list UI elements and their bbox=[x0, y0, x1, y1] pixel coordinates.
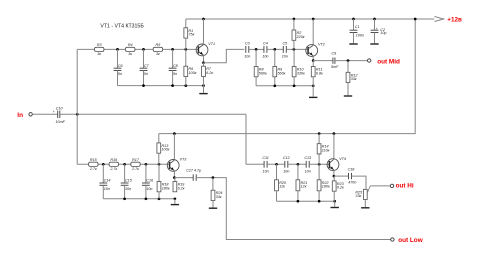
svg-text:VT1: VT1 bbox=[208, 42, 215, 46]
svg-text:3к: 3к bbox=[97, 52, 101, 56]
svg-text:5mF: 5mF bbox=[331, 65, 339, 69]
svg-text:10µ: 10µ bbox=[380, 31, 386, 35]
svg-text:470n: 470n bbox=[348, 180, 356, 184]
svg-text:C16: C16 bbox=[146, 179, 154, 183]
svg-text:2.7к: 2.7к bbox=[109, 167, 117, 171]
svg-text:5n: 5n bbox=[173, 72, 177, 76]
svg-text:100к: 100к bbox=[189, 71, 197, 75]
svg-text:C14: C14 bbox=[104, 179, 111, 183]
svg-text:6.2к: 6.2к bbox=[337, 186, 344, 190]
svg-text:C10: C10 bbox=[56, 106, 64, 110]
svg-text:10n: 10n bbox=[146, 187, 152, 191]
svg-text:75к: 75к bbox=[189, 33, 195, 37]
svg-text:33к: 33к bbox=[355, 194, 361, 198]
svg-text:12к: 12к bbox=[301, 185, 307, 189]
svg-text:VT3: VT3 bbox=[180, 158, 188, 162]
svg-text:12к: 12к bbox=[279, 185, 285, 189]
svg-text:6.8к: 6.8к bbox=[316, 71, 323, 75]
svg-text:VT2: VT2 bbox=[318, 43, 325, 47]
svg-text:R17: R17 bbox=[132, 158, 140, 162]
svg-text:220к: 220к bbox=[296, 35, 305, 39]
svg-text:3к: 3к bbox=[156, 52, 160, 56]
svg-text:10n: 10n bbox=[125, 187, 131, 191]
svg-text:out Low: out Low bbox=[398, 237, 423, 244]
svg-text:2.7к: 2.7к bbox=[131, 167, 139, 171]
svg-text:180к: 180к bbox=[162, 186, 170, 190]
svg-text:C17 4.7µ: C17 4.7µ bbox=[186, 169, 201, 173]
svg-text:C18: C18 bbox=[348, 167, 356, 171]
svg-text:2.7к: 2.7к bbox=[89, 167, 97, 171]
svg-text:10mF: 10mF bbox=[56, 120, 66, 124]
svg-text:10n: 10n bbox=[283, 170, 289, 174]
svg-text:R4: R4 bbox=[128, 43, 133, 47]
svg-text:In: In bbox=[17, 112, 23, 119]
svg-text:33к: 33к bbox=[216, 195, 222, 199]
svg-text:C13: C13 bbox=[304, 156, 312, 160]
svg-text:out Mid: out Mid bbox=[377, 58, 400, 65]
svg-text:560к: 560к bbox=[259, 71, 267, 75]
svg-text:VT4: VT4 bbox=[339, 157, 346, 161]
svg-text:C9: C9 bbox=[332, 52, 337, 56]
svg-text:+: + bbox=[376, 27, 378, 31]
svg-text:R16: R16 bbox=[110, 158, 118, 162]
svg-text:10n: 10n bbox=[262, 55, 268, 59]
svg-text:C12: C12 bbox=[283, 156, 290, 160]
svg-text:560к: 560к bbox=[278, 71, 286, 75]
svg-text:C4: C4 bbox=[263, 41, 268, 45]
svg-text:33к: 33к bbox=[351, 77, 357, 81]
svg-text:5n: 5n bbox=[118, 72, 122, 76]
svg-text:C1: C1 bbox=[355, 25, 360, 29]
svg-text:10n: 10n bbox=[104, 187, 110, 191]
svg-text:6.2к: 6.2к bbox=[206, 71, 213, 75]
svg-text:3к: 3к bbox=[128, 52, 132, 56]
svg-text:110к: 110к bbox=[322, 149, 330, 153]
svg-text:100n: 100n bbox=[356, 34, 364, 38]
svg-text:out Hi: out Hi bbox=[396, 183, 414, 190]
svg-text:330к: 330к bbox=[297, 71, 305, 75]
svg-text:5n: 5n bbox=[144, 72, 148, 76]
svg-text:C11: C11 bbox=[262, 156, 269, 160]
svg-text:+: + bbox=[53, 110, 55, 114]
svg-text:10n: 10n bbox=[263, 170, 269, 174]
svg-text:10n: 10n bbox=[305, 170, 311, 174]
svg-text:C15: C15 bbox=[125, 179, 133, 183]
svg-text:10n: 10n bbox=[282, 55, 288, 59]
svg-text:10n: 10n bbox=[244, 55, 250, 59]
svg-text:6.2к: 6.2к bbox=[178, 186, 185, 190]
svg-text:180к: 180к bbox=[322, 185, 330, 189]
svg-text:+12в: +12в bbox=[447, 17, 462, 24]
svg-text:VT1 - VT4 КТ315Б: VT1 - VT4 КТ315Б bbox=[100, 24, 144, 30]
svg-text:100к: 100к bbox=[162, 148, 170, 152]
svg-text:R15: R15 bbox=[90, 158, 98, 162]
